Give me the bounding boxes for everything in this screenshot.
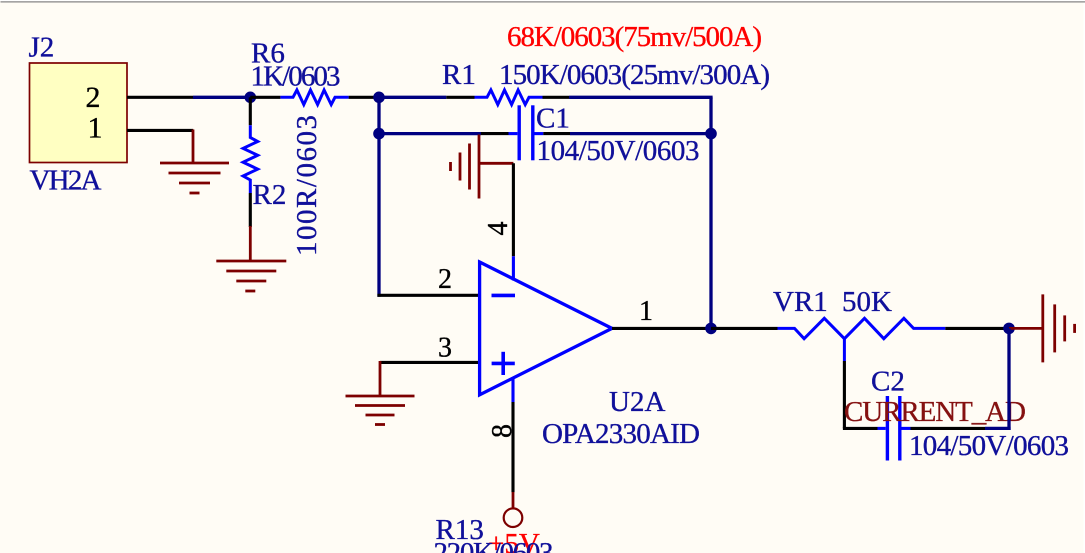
wire pin 3 horizontal [380, 361, 478, 364]
svg-text:2: 2 [86, 81, 101, 114]
ground right rotated [1009, 294, 1075, 362]
wire C1 right [570, 132, 711, 135]
wire C2 right to corner [985, 427, 1011, 430]
wire right vertical top [709, 97, 712, 328]
resistor R6 [250, 90, 379, 105]
VR1 wiper drop wire [843, 361, 846, 428]
wire vertical node A [377, 97, 380, 296]
op-amp pin 4 stub [512, 256, 515, 280]
svg-text:1: 1 [88, 112, 103, 145]
svg-text:OPA2330AID: OPA2330AID [542, 418, 700, 450]
resistor R2 [243, 97, 258, 227]
op-amp plus symbol [492, 352, 515, 375]
svg-text:C1: C1 [536, 103, 570, 135]
op-amp output pin 1 wire [612, 327, 711, 330]
svg-text:100R/0603: 100R/0603 [291, 115, 323, 256]
junction node A at C1 row [373, 128, 385, 140]
connector J2 body [30, 63, 128, 163]
capacitor C1 [481, 105, 570, 160]
wire wiper to C2 [843, 427, 878, 430]
junction node A top [373, 92, 385, 104]
op-amp minus symbol [492, 294, 516, 298]
svg-text:50K: 50K [842, 286, 892, 318]
op-amp U2A triangle [480, 262, 612, 395]
wire pin2 to junction [193, 96, 250, 99]
svg-text:VR1: VR1 [773, 286, 828, 318]
wire R1 right to corner [569, 96, 713, 99]
+5V power port [512, 492, 515, 508]
svg-text:CURRENT_AD: CURRENT_AD [844, 396, 1026, 428]
svg-text:2: 2 [438, 264, 452, 295]
capacitor C2 [878, 396, 986, 461]
ground at J2 pin 1 [160, 130, 229, 194]
junction at R6 left / R2 top [245, 92, 257, 104]
resistor R1 [446, 90, 569, 105]
wire right vertical down [1007, 328, 1010, 430]
J2 pin 2 [127, 96, 193, 99]
svg-text:150K/0603(25mv/300A): 150K/0603(25mv/300A) [499, 59, 770, 91]
op-amp pin 4 wire [512, 163, 515, 256]
ground at pin 3 [346, 361, 415, 425]
svg-text:U2A: U2A [609, 386, 665, 418]
svg-text:R2: R2 [253, 179, 287, 211]
svg-text:104/50V/0603: 104/50V/0603 [537, 135, 700, 167]
potentiometer VR1 [778, 318, 946, 361]
junction right vertical C1 row [705, 128, 717, 140]
op-amp pin 8 stub [511, 378, 514, 402]
svg-text:C2: C2 [871, 366, 905, 398]
junction VR1 right [1003, 323, 1015, 335]
wire pin 2 horizontal [377, 294, 478, 297]
svg-text:1: 1 [639, 296, 653, 327]
svg-text:VH2A: VH2A [30, 165, 102, 197]
wire output to VR1 [711, 327, 778, 330]
wire C1 row left [379, 132, 481, 135]
svg-text:4: 4 [483, 222, 514, 236]
op-amp pin 8 wire [511, 402, 514, 492]
sheet top border line [1, 1, 1085, 2]
svg-text:68K/0603(75mv/500A): 68K/0603(75mv/500A) [507, 21, 762, 53]
wire junction A to R1 [379, 96, 446, 99]
J2 pin 1 [127, 129, 193, 132]
svg-text:R1: R1 [442, 59, 476, 91]
svg-text:104/50V/0603: 104/50V/0603 [909, 430, 1069, 462]
ground below R2 [216, 226, 286, 291]
svg-text:3: 3 [438, 333, 452, 364]
svg-text:8: 8 [487, 424, 518, 438]
svg-text:220K/0603: 220K/0603 [434, 537, 554, 553]
wire VR1 right to junction [945, 327, 1009, 330]
svg-text:J2: J2 [29, 32, 55, 64]
junction output node [705, 323, 717, 335]
ground at pin 4 rotated [451, 135, 514, 199]
svg-text:1K/0603: 1K/0603 [251, 61, 341, 93]
